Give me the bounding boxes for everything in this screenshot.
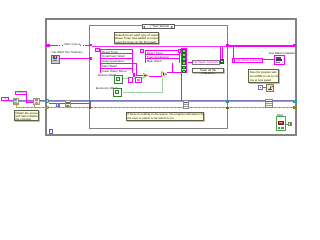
node: Enqueue Element (init) <box>33 98 40 105</box>
terminal icon: Car Wash Indicator (outside) <box>274 55 285 65</box>
tunnel: case left pink (switches) <box>89 57 92 60</box>
comment: if there is nothing in the queue <box>126 112 204 122</box>
tunnel: loop left teal ring <box>46 99 50 103</box>
tunnel: loop right olive <box>293 106 296 109</box>
comment: selections for each type of wash <box>114 32 159 44</box>
wire: double vertical array wire up <box>219 47 222 59</box>
case selector label <box>142 24 175 29</box>
tunnel: case left teal <box>89 100 92 102</box>
tunnel: loop right pink <box>293 44 297 47</box>
label: Economy Wash <box>96 87 118 90</box>
listbox2 index <box>140 49 144 53</box>
iteration terminal i <box>49 129 54 134</box>
node: empty string constant (pink square) <box>128 77 133 83</box>
label: Car Wash Sim Switches <box>52 51 83 54</box>
comment: obtain the queue <box>14 110 39 121</box>
wire: listbox1 out to select1 <box>133 62 138 65</box>
wire: array to indicator label <box>188 61 192 64</box>
wire: green TF2 to select2 <box>123 91 163 94</box>
wire: stop to conditional <box>286 123 288 126</box>
label: Stop <box>277 114 283 117</box>
wire: yellow error <box>16 107 296 109</box>
node: Release Queue <box>265 99 274 108</box>
tunnel: loop left pink <box>46 44 50 47</box>
case structure <box>89 25 228 129</box>
wire: initialize drop <box>25 95 28 102</box>
terminal icon: indicator (inside case) <box>220 59 224 65</box>
wire: green TF1 to select1 <box>123 77 143 80</box>
local variable: Car Wash Indicator <box>232 58 263 63</box>
while loop <box>45 18 297 136</box>
node: select 2 <box>161 71 168 78</box>
tunnel: case selector pink <box>89 103 92 106</box>
node: Obtain Queue <box>13 98 20 105</box>
tunnel: loop right teal <box>293 100 296 103</box>
conditional terminal <box>288 122 292 127</box>
node: small violet <box>56 103 60 107</box>
label: Deluxe Wash <box>98 74 116 77</box>
listbox1 strings <box>100 49 133 74</box>
wire: dequeue element out (pink) <box>49 102 89 105</box>
terminal: stop button <box>276 116 286 131</box>
wire: Main Queue dashed label wire <box>50 44 58 47</box>
listbox2 strings <box>145 50 180 64</box>
wire: purple queue reference <box>9 100 296 102</box>
comment: Clear all the indicators <box>192 68 224 73</box>
wire: local var to icon <box>263 58 275 61</box>
node: Wait Until Next ms Multiple <box>266 84 274 92</box>
listbox1 index <box>95 48 100 52</box>
boolean array index <box>178 49 181 53</box>
terminal icon: Car Wash Sim Switches <box>51 55 60 64</box>
tunnel: case right teal <box>226 100 229 103</box>
tunnel: case left pink (top) <box>89 44 92 47</box>
comment: have the program wait <box>248 69 279 83</box>
label box: Initialize <box>15 91 27 95</box>
wire: select1 to select2 <box>149 75 162 78</box>
label: Car Wash Indicator (outside) <box>269 52 295 55</box>
wire: listbox2 down to select2 <box>171 63 174 73</box>
node: string frame constant <box>135 77 142 83</box>
wire: select2 out to enqueue <box>168 71 181 74</box>
wire: queue wire across case <box>92 46 226 47</box>
node: select 1 <box>143 73 150 79</box>
node: Dequeue Element <box>65 100 71 107</box>
boolean constant: Deluxe Wash <box>114 75 124 85</box>
tunnel: case right olive <box>226 107 229 110</box>
tunnel: loop left olive ring <box>46 106 50 110</box>
tunnel: case left olive <box>89 106 92 108</box>
label box: queue name <box>1 97 9 101</box>
tunnel: case right pink <box>226 44 229 47</box>
wire: branch down to local variable <box>232 47 235 58</box>
label box: Car Wash Indicator (inside case) <box>192 60 220 65</box>
wire: ms to metronome <box>263 86 266 89</box>
wire: indicator wire to loop border <box>229 45 293 47</box>
boolean constant: Economy Wash <box>113 88 123 98</box>
boolean array constant <box>181 48 187 73</box>
constant: ms blue <box>258 85 263 91</box>
wire: switches to case <box>60 57 89 60</box>
wire: listbox1 bottom to string constants <box>132 73 135 77</box>
node: Enqueue Element (state) <box>183 100 190 109</box>
